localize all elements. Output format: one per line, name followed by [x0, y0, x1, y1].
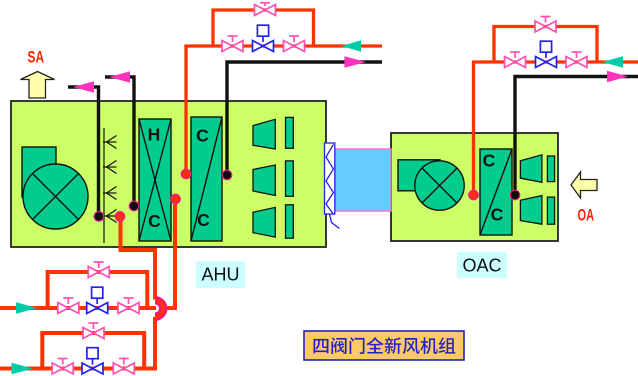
- supply fan F1: [22, 147, 88, 229]
- red bypass loop bottom 2: [42, 333, 144, 369]
- svg-text:C: C: [197, 210, 210, 230]
- AHU casing: [11, 101, 326, 247]
- valve V4: [505, 52, 526, 68]
- damper D1: [325, 143, 340, 229]
- valve V5: [566, 52, 587, 68]
- OAC coil labels: [483, 151, 504, 225]
- red bypass loop top OAC: [494, 27, 597, 63]
- motor valve M3: [87, 287, 108, 313]
- glyph 四: [313, 339, 328, 354]
- svg-text:C: C: [491, 205, 504, 225]
- node OAC coil black: [510, 190, 520, 200]
- svg-text:AHU: AHU: [201, 265, 239, 285]
- outdoor air arrow OA: [571, 172, 597, 198]
- node washer drain: [94, 212, 104, 222]
- glyph 机: [420, 337, 437, 354]
- coil H/C labels: [148, 125, 162, 232]
- bypass valve V6: [535, 17, 556, 33]
- flow arrow return right: [344, 56, 366, 67]
- motor valve M1: [253, 25, 274, 51]
- glyph 门: [350, 337, 365, 354]
- node OAC coil supply: [469, 190, 479, 200]
- label AHU: [196, 261, 245, 288]
- pipe crossing hop: [155, 300, 163, 316]
- title box: four-valve fresh air unit: [304, 331, 464, 360]
- node coil C/C supply: [181, 169, 191, 179]
- coil H/C: [139, 119, 171, 241]
- svg-text:C: C: [483, 151, 496, 171]
- valve V8: [118, 298, 139, 314]
- black pipe OAC coil return: [515, 77, 638, 194]
- OAC filter wedges: [520, 155, 554, 224]
- svg-text:C: C: [196, 126, 209, 146]
- connecting duct: [335, 149, 391, 211]
- black pipe exhaust 2: [105, 77, 134, 204]
- svg-text:H: H: [148, 125, 161, 145]
- glyph 阀: [331, 337, 346, 354]
- pipe crossing hop core: [155, 300, 163, 316]
- black pipe exhaust 1: [68, 87, 99, 214]
- coil C/C: [191, 117, 222, 241]
- flow arrow black pipe 1: [73, 81, 94, 92]
- OAC casing: [391, 133, 558, 241]
- glyph 组: [439, 337, 456, 353]
- flow arrow supply left: [342, 40, 362, 51]
- black pipe coil C/C return: [227, 62, 382, 173]
- node coil C/C black: [222, 170, 232, 180]
- label OAC: [457, 252, 507, 278]
- valve V2: [284, 36, 305, 52]
- AHU filter wedges: [253, 117, 293, 238]
- OAC coil C/C: [480, 149, 512, 235]
- svg-text:C: C: [148, 211, 161, 231]
- red bypass loop bottom 1: [48, 272, 148, 308]
- flow arrow bottom 1: [16, 302, 38, 314]
- red pipe coil C/C supply riser: [186, 46, 382, 172]
- flow arrow OAC return: [607, 71, 628, 82]
- motor valve M4: [82, 348, 103, 374]
- glyph 风: [403, 338, 420, 354]
- node coil H/C black: [129, 201, 139, 211]
- valve V10: [52, 359, 73, 375]
- coil C/C labels: [196, 126, 210, 231]
- valve V11: [113, 359, 134, 375]
- flow arrow bottom 2: [12, 363, 34, 375]
- bypass valve V3: [255, 3, 276, 16]
- valve V7: [58, 298, 79, 314]
- glyph 全: [366, 337, 383, 353]
- red pipe group 1 riser to coil H/C: [163, 201, 175, 308]
- bypass valve V12: [83, 323, 104, 339]
- glyph 新: [385, 337, 402, 354]
- svg-text:SA: SA: [28, 48, 45, 67]
- red pipe bottom group 1 main: [0, 306, 156, 310]
- bypass valve V9: [88, 262, 109, 278]
- node coil H/C return: [171, 194, 181, 204]
- spray humidifier: [103, 128, 117, 243]
- node washer supply: [115, 212, 125, 222]
- OAC fan F2: [398, 160, 464, 210]
- red pipe OAC coil supply riser: [474, 62, 638, 193]
- red pipe bottom group 2 main: [0, 317, 155, 369]
- motor valve M2: [536, 41, 557, 67]
- red bypass loop top AHU: [213, 10, 314, 46]
- flow arrow black pipe 2: [109, 71, 130, 82]
- svg-text:OA: OA: [578, 205, 595, 224]
- flow arrow OAC supply: [603, 56, 624, 67]
- supply air arrow SA: [21, 72, 55, 99]
- red pipe group 2 riser to washer: [121, 216, 156, 300]
- valve V1: [222, 36, 243, 52]
- svg-text:OAC: OAC: [462, 255, 501, 275]
